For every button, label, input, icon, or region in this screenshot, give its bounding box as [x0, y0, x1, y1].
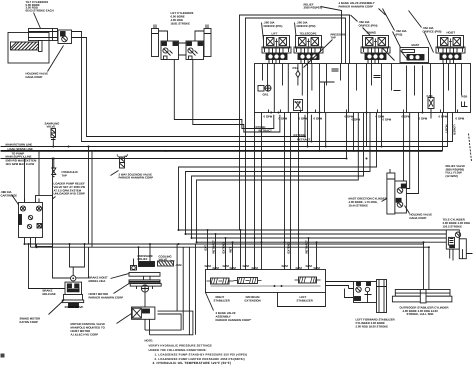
svg-text:GR1: GR1 — [263, 93, 269, 97]
bank label — [339, 1, 375, 8]
leader P06 — [409, 11, 434, 53]
leader relief right — [469, 134, 472, 162]
main return line — [1, 113, 448, 147]
manifold bottom ticks — [269, 110, 458, 113]
tilt cylinder barrel — [29, 29, 58, 41]
wires LIFT to manifold — [269, 60, 280, 64]
wires 3-bank to stabilizer — [326, 282, 354, 298]
svg-text:RETRACT: RETRACT — [259, 129, 273, 133]
svg-text:EXTEND: EXTEND — [222, 242, 226, 253]
manifold internal drop lines — [263, 64, 462, 113]
svg-text:CAB: CAB — [295, 100, 301, 104]
tilt cylinder label — [26, 0, 54, 12]
svg-text:PARKER HANNIFIN CORP: PARKER HANNIFIN CORP — [89, 296, 124, 300]
manifold right internals — [320, 69, 401, 113]
leader P01 — [262, 23, 264, 41]
leader 3-bank — [206, 293, 214, 311]
svg-text:RETRACT: RETRACT — [212, 240, 216, 254]
relief P03 label — [304, 3, 322, 10]
pressure tap label — [331, 32, 347, 39]
svg-text:LOAD SENSE LINE: LOAD SENSE LINE — [8, 147, 33, 151]
mast erection cylinder — [387, 169, 395, 214]
routing bottom H13 — [186, 233, 447, 235]
junction dots loader — [24, 150, 41, 160]
long verticals bank to lower — [255, 113, 299, 270]
svg-text:0 GPM: 0 GPM — [383, 118, 392, 122]
valve section TELESCOPE — [294, 36, 323, 60]
junction dots 3-bank feeds — [207, 229, 318, 243]
left fwd stabilizer valve — [354, 282, 377, 303]
3-bank feed verticals — [208, 230, 317, 270]
svg-text:CARTRIDGE: CARTRIDGE — [1, 193, 18, 197]
orifice label P01 — [264, 21, 283, 28]
wires HOIST to manifold — [443, 60, 454, 64]
leader mast label — [382, 199, 387, 202]
lower cross line B — [31, 246, 429, 248]
svg-text:RETRACT: RETRACT — [297, 138, 311, 142]
svg-text:2.00 ROD 18.00 STROKE: 2.00 ROD 18.00 STROKE — [356, 324, 389, 328]
svg-text:SWING DRIVE: SWING DRIVE — [65, 305, 84, 309]
svg-text:0 GPM: 0 GPM — [352, 118, 361, 122]
lift cylinder right — [204, 25, 211, 57]
svg-text:RELEASE: RELEASE — [43, 292, 56, 296]
down tee from return — [89, 147, 93, 248]
sampling valve — [51, 129, 56, 147]
GR symbol — [258, 85, 271, 96]
3-bank internal line — [211, 285, 321, 287]
svg-text:TAP: TAP — [331, 36, 337, 40]
svg-text:GPM: GPM — [306, 264, 313, 268]
svg-text:GPM: GPM — [223, 264, 230, 268]
section labels 3-bank — [214, 295, 313, 302]
PS1 pressure tap — [293, 64, 301, 86]
valve section HOIST — [436, 36, 465, 60]
svg-text:PS1: PS1 — [293, 66, 299, 70]
routing line H10 — [192, 113, 364, 239]
orifice label P04 — [359, 20, 378, 27]
lift cylinders label — [171, 11, 194, 25]
junction dots manifold bottom — [270, 112, 423, 114]
routing line H9 — [186, 113, 371, 235]
valve section SWING — [361, 36, 390, 60]
load sense label — [8, 147, 33, 155]
holding valve label — [26, 72, 49, 79]
hoist motor labels top — [138, 254, 183, 267]
3-bank valve body — [206, 270, 326, 293]
svg-text:EXT: EXT — [204, 245, 208, 251]
wires loader block bottom — [25, 238, 37, 248]
hoist motor — [129, 261, 174, 292]
svg-text:STABILIZER: STABILIZER — [214, 298, 230, 302]
lift holding valve left — [161, 41, 179, 60]
loader pump relief block — [19, 196, 53, 247]
svg-text:HOIST: HOIST — [445, 125, 449, 134]
routing bottom H14 — [192, 237, 447, 239]
wire tilt B — [72, 38, 306, 137]
hydraulic tap — [52, 159, 78, 178]
leader motor control valve — [117, 314, 132, 324]
wire lift A — [174, 60, 273, 129]
svg-text:DANA CORP: DANA CORP — [410, 216, 427, 220]
routing line H8 — [179, 113, 377, 231]
verticals mast cylinder feed — [404, 113, 419, 194]
leader bank label — [379, 9, 386, 16]
svg-text:PARKER HANNIFIN CORP: PARKER HANNIFIN CORP — [119, 176, 154, 180]
CAB box right — [427, 94, 435, 119]
routing line H11 — [197, 113, 359, 243]
brake hoist label — [89, 276, 109, 283]
lower cross line A — [25, 242, 424, 244]
wires loader block top — [25, 151, 40, 203]
left fwd stabilizer label — [356, 318, 395, 329]
svg-text:66.63 STROKE EACH: 66.63 STROKE EACH — [26, 9, 54, 13]
notes block — [145, 339, 248, 365]
outrigger label — [400, 306, 449, 316]
PSR symbol — [462, 95, 468, 107]
main supply label — [6, 155, 37, 166]
svg-text:NOTE:: NOTE: — [145, 339, 154, 343]
valve bank enclosure outer — [240, 15, 350, 230]
leader mast hv — [405, 206, 410, 214]
svg-text:UNLOADER HYD CORP: UNLOADER HYD CORP — [54, 192, 86, 196]
3-bank label — [216, 311, 253, 322]
section label MAST — [412, 43, 420, 47]
spool beam extension — [234, 278, 262, 284]
leader holding valve — [48, 46, 64, 72]
cartridge label — [1, 190, 18, 197]
tele cylinder label — [443, 218, 471, 229]
svg-text:EXTEND: EXTEND — [287, 242, 291, 253]
swing motor label — [20, 317, 41, 324]
leader pressure tap — [304, 40, 333, 68]
wires SWING to manifold — [368, 60, 379, 64]
svg-text:EATON CORP: EATON CORP — [20, 320, 39, 324]
leader tilt label — [34, 13, 41, 29]
svg-text:126.5 STROKE: 126.5 STROKE — [443, 224, 463, 228]
leader P05 — [383, 9, 405, 56]
svg-text:3. HYDRAULIC OIL TEMPERATURE 1: 3. HYDRAULIC OIL TEMPERATURE 120°F (50°F… — [153, 361, 232, 365]
svg-text:ORIFICE (P04): ORIFICE (P04) — [359, 23, 378, 27]
svg-text:0 GPM: 0 GPM — [264, 115, 273, 119]
section label HOIST — [447, 31, 456, 35]
lift cylinder left — [152, 25, 159, 57]
leader swing motor — [49, 300, 65, 315]
relief valve label right — [446, 164, 466, 178]
routing bottom H12 — [179, 229, 447, 231]
2-way solenoid valve — [111, 153, 154, 180]
lift holding valve right — [186, 41, 204, 60]
svg-text:TAP: TAP — [62, 173, 68, 177]
valve bank enclosure inner — [246, 18, 346, 234]
svg-text:ORIFICE (P01): ORIFICE (P01) — [264, 24, 283, 28]
svg-text:(12 GPM): (12 GPM) — [446, 174, 458, 178]
mast cylinder label — [349, 197, 387, 208]
svg-text:UNDER THE FOLLOWING CONDITIONS: UNDER THE FOLLOWING CONDITIONS: — [149, 348, 207, 352]
svg-text:SWING: SWING — [367, 31, 376, 35]
3-bank internal dots — [274, 285, 283, 287]
svg-text:DANA CORP: DANA CORP — [26, 75, 43, 79]
orifice label P05 — [396, 29, 407, 36]
svg-text:MAST: MAST — [412, 43, 420, 47]
svg-text:0 GPM: 0 GPM — [456, 117, 465, 121]
orifice label P06 — [423, 26, 442, 33]
leader relief P03 — [321, 7, 342, 64]
rotated hoist lower text — [445, 125, 457, 135]
section label LIFT — [272, 32, 278, 36]
section label TELESCOPE — [300, 32, 317, 36]
wire tilt A — [72, 32, 453, 142]
svg-text:RET: RET — [229, 247, 233, 253]
leader P02 — [295, 23, 297, 41]
svg-text:18.81 STROKE: 18.81 STROKE — [171, 21, 191, 25]
svg-text:STABILIZER: STABILIZER — [297, 298, 313, 302]
main supply line — [1, 158, 347, 160]
svg-text:ORIFICE (P06): ORIFICE (P06) — [423, 29, 442, 33]
svg-text:RELIEF: RELIEF — [138, 257, 148, 261]
svg-text:3050 PSI(P03): 3050 PSI(P03) — [304, 6, 322, 10]
sampling valve label — [45, 122, 60, 129]
load sense line — [1, 150, 443, 152]
junction dots bus — [52, 136, 430, 249]
GPM labels under manifold — [264, 115, 465, 122]
main return label — [6, 143, 33, 147]
extend/retract labels lift — [254, 125, 311, 142]
motor control valve label — [71, 322, 106, 336]
svg-text:CAB: CAB — [427, 94, 433, 98]
svg-text:GPM: GPM — [282, 264, 289, 268]
swing motor — [62, 276, 83, 308]
section label SWING — [367, 31, 376, 35]
svg-text:RETRACT: RETRACT — [305, 240, 309, 254]
leader cartridge — [12, 195, 21, 208]
swing motor wires — [29, 159, 89, 289]
valve section MAST — [400, 48, 429, 63]
svg-text:ORIFICE (P02): ORIFICE (P02) — [297, 24, 316, 28]
svg-text:0 GPM: 0 GPM — [419, 117, 428, 121]
leader P04 — [351, 15, 395, 61]
svg-text:GPM: GPM — [205, 264, 212, 268]
motor control valve — [132, 307, 155, 319]
svg-text:0 GPM: 0 GPM — [279, 117, 288, 121]
bottom-left mark — [1, 354, 5, 358]
svg-text:19.44 STROKE: 19.44 STROKE — [349, 203, 369, 207]
svg-text:0 GPM: 0 GPM — [299, 117, 308, 121]
rotated port labels 3-bank — [204, 240, 309, 254]
svg-text:(P05): (P05) — [396, 32, 403, 36]
valve section LIFT — [262, 36, 291, 60]
wires TELESCOPE to manifold — [301, 60, 312, 64]
leader loader relief — [41, 197, 56, 209]
tilt outer box — [8, 33, 49, 64]
wire lift B — [193, 60, 280, 133]
svg-text:18.5 GPM MAX FLOW: 18.5 GPM MAX FLOW — [6, 162, 35, 166]
svg-text:VALVE: VALVE — [47, 125, 56, 129]
svg-text:EXTEND: EXTEND — [294, 133, 305, 137]
svg-text:VERIFY HYDRAULIC PRESSURE SETT: VERIFY HYDRAULIC PRESSURE SETTINGS — [149, 344, 212, 348]
verticals manifold to bus — [308, 113, 429, 290]
holding valve V1 — [58, 30, 72, 44]
motor control valve loop outer — [150, 311, 193, 335]
spool left stabilizer — [295, 277, 321, 283]
brake release label — [43, 289, 56, 296]
svg-text:MODEL HDA: MODEL HDA — [89, 279, 106, 283]
svg-text:A.I.&L&C HYD CORP: A.I.&L&C HYD CORP — [71, 332, 99, 336]
stray mark b — [171, 259, 176, 263]
motor control valve loop inner — [145, 314, 181, 330]
junction dots lower — [24, 146, 180, 249]
mast holding valve — [395, 181, 407, 213]
svg-text:0 GPM: 0 GPM — [314, 117, 323, 121]
leader hoist motor — [114, 284, 130, 294]
svg-text:PARKER HANNIFIN CORP: PARKER HANNIFIN CORP — [339, 4, 374, 8]
svg-text:EXTENSION: EXTENSION — [245, 298, 261, 302]
hoist motor wires — [134, 244, 196, 335]
svg-text:0 GPM: 0 GPM — [439, 115, 448, 119]
spool right stabilizer — [207, 278, 234, 284]
svg-text:TELESCOPE: TELESCOPE — [300, 32, 317, 36]
leader brake hoist — [111, 274, 130, 279]
CAB box inside manifold — [294, 100, 303, 111]
orifice label P02 — [297, 21, 316, 28]
svg-text:LOWER: LOWER — [453, 125, 457, 135]
hoist motor label — [89, 292, 124, 299]
outrigger cylinder — [392, 290, 452, 303]
loader relief label — [54, 182, 86, 196]
routing bottom H15 — [197, 241, 447, 243]
GPM marks above 3-bank — [205, 264, 321, 270]
svg-text:STROKE, LULL SER.: STROKE, LULL SER. — [407, 312, 435, 316]
left fwd stabilizer cylinder — [377, 280, 387, 313]
mast holding valve label — [410, 213, 433, 220]
manifold block — [255, 64, 471, 113]
svg-text:PARKER HANNIFIN CORP*: PARKER HANNIFIN CORP* — [216, 318, 253, 322]
svg-text:LIFT: LIFT — [272, 32, 278, 36]
lift plumbing pipes — [159, 31, 205, 55]
svg-text:PSR: PSR — [462, 95, 468, 99]
tilt rod hatched — [11, 41, 43, 52]
left stabilizer route box — [278, 293, 326, 307]
svg-text:HOIST: HOIST — [447, 31, 456, 35]
swing drive label — [65, 305, 84, 309]
tele holding valve — [446, 230, 472, 261]
wires MAST to manifold — [411, 63, 418, 66]
svg-text:MAIN RETURN LINE: MAIN RETURN LINE — [6, 143, 33, 147]
svg-text:JAM: JAM — [176, 263, 183, 267]
svg-text:GPM: GPM — [243, 264, 250, 268]
